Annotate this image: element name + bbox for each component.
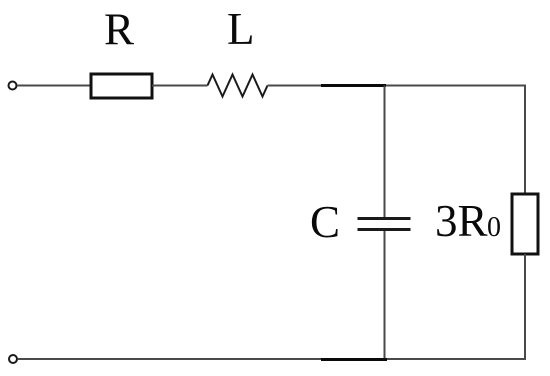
svg-text:C: C <box>310 197 340 247</box>
wire: L to top junction <box>268 85 322 87</box>
svg-text:L: L <box>227 4 255 54</box>
resistor 3R0 <box>512 194 538 254</box>
wire: top-left (terminal to R) <box>17 85 91 87</box>
inductor L (zigzag) <box>208 75 268 97</box>
wire: top right segment <box>386 85 526 87</box>
wire: top junction segment (thick) <box>321 84 386 87</box>
terminal: top input <box>9 82 17 90</box>
wire: C branch upper vertical <box>384 86 386 218</box>
svg-text:0: 0 <box>487 212 501 243</box>
wire: bottom right segment <box>387 358 526 360</box>
wire: right branch lower vertical <box>524 254 526 360</box>
wire: bottom junction segment (thick) <box>321 358 387 361</box>
wire: right branch upper vertical <box>524 85 526 195</box>
svg-text:3R: 3R <box>435 196 488 246</box>
wire: bottom-left long segment <box>18 358 322 360</box>
resistor R <box>91 74 152 98</box>
capacitor C: bottom plate <box>358 228 411 231</box>
terminal: bottom input <box>9 355 17 363</box>
svg-text:R: R <box>104 5 134 55</box>
wire: R to L <box>152 85 208 87</box>
capacitor C: top plate <box>358 217 411 220</box>
wire: C branch lower vertical <box>384 231 386 359</box>
